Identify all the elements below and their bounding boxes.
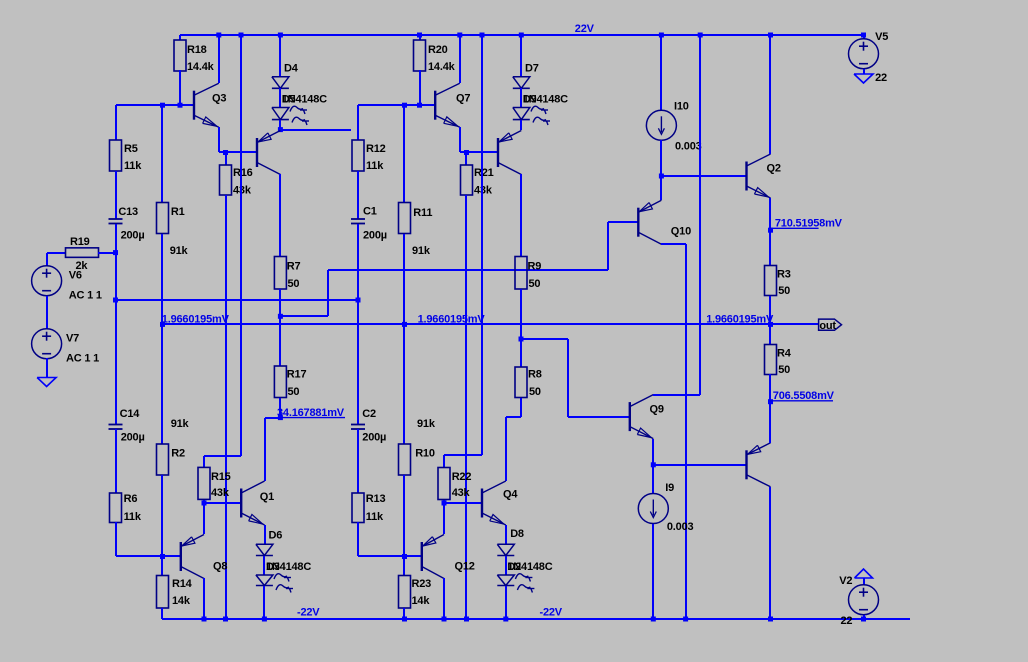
wire R15 to Q1 base — [203, 500, 205, 503]
diode D8b — [497, 575, 514, 586]
wire C2 to R13 — [357, 429, 359, 493]
wire Q8 collector down — [203, 578, 205, 619]
svg-text:14k: 14k — [412, 595, 431, 607]
svg-text:-22V: -22V — [297, 607, 320, 619]
junction Q8 collector rail — [202, 617, 207, 622]
svg-text:R13: R13 — [366, 493, 386, 505]
wire node to PNP3 base — [653, 464, 746, 466]
svg-text:Q3: Q3 — [212, 93, 226, 105]
resistor R19 — [66, 248, 99, 258]
junction R7 bottom node — [278, 314, 283, 319]
wire PNP3 emitter up — [769, 402, 771, 443]
resistor R11 — [399, 203, 411, 234]
wire D9 to node — [520, 120, 522, 130]
wire R22 to Q4 base — [443, 500, 445, 503]
resistor R3 — [765, 266, 777, 296]
resistor R18 — [174, 40, 186, 71]
wire V6 to V7 — [46, 296, 48, 329]
junction Q8 base node — [160, 554, 165, 559]
svg-text:50: 50 — [778, 285, 790, 297]
transistor Q7 (NPN) — [434, 91, 436, 120]
svg-text:D9: D9 — [523, 94, 537, 106]
wire bias vertical mid — [481, 35, 483, 455]
underline 706.5508mV — [770, 400, 833, 402]
wire R16 to rail — [225, 195, 227, 619]
svg-text:50: 50 — [288, 386, 300, 398]
svg-text:R19: R19 — [70, 236, 90, 248]
svg-text:R20: R20 — [428, 44, 448, 56]
junction Q1 base node — [202, 501, 207, 506]
svg-text:1.9660195mV: 1.9660195mV — [706, 314, 774, 326]
svg-text:R6: R6 — [124, 493, 138, 505]
wire R20 to base row — [419, 70, 421, 105]
svg-text:50: 50 — [778, 364, 790, 376]
svg-text:C13: C13 — [118, 206, 138, 218]
wire R9 to node — [520, 289, 522, 339]
voltage source V7 — [32, 329, 62, 359]
diode D6 — [256, 544, 273, 555]
transistor Q3 (NPN) — [193, 91, 195, 120]
svg-text:Q1: Q1 — [260, 491, 274, 503]
wire D7 to D9 — [520, 88, 522, 108]
resistor R21 — [461, 165, 473, 195]
junction D5 bottom node — [278, 127, 283, 132]
wire D6 to D6b — [263, 556, 265, 575]
junction R9 bottom node — [519, 337, 524, 342]
wire R23 to rail — [403, 608, 405, 619]
svg-text:out: out — [819, 320, 836, 332]
wire R12 to C1 — [357, 171, 359, 219]
svg-text:Q12: Q12 — [455, 561, 475, 573]
wire Q7 emitter — [459, 127, 461, 152]
wire R21 to rail — [465, 195, 467, 619]
wire Q4 emitter to D8 — [505, 525, 507, 544]
diode D5 — [272, 108, 289, 120]
wire bias vertical left — [240, 35, 242, 456]
svg-text:0.003: 0.003 — [667, 521, 694, 533]
svg-text:91k: 91k — [417, 418, 436, 430]
transistor Q8 (PNP) — [180, 542, 182, 571]
svg-text:200µ: 200µ — [362, 432, 386, 444]
junction PNP3 collector rail — [768, 617, 773, 622]
junction R16 top node — [223, 150, 228, 155]
wire C1 to C2 — [357, 224, 359, 424]
svg-text:91k: 91k — [170, 245, 189, 257]
wire Q4 base row — [444, 502, 482, 504]
svg-text:200µ: 200µ — [121, 432, 145, 444]
wire R12 top corner — [357, 105, 359, 140]
svg-text:Q7: Q7 — [456, 93, 470, 105]
svg-text:D5: D5 — [282, 94, 296, 106]
wire node to R21 — [465, 152, 467, 165]
diode D6b — [256, 575, 273, 586]
wire R17 node to Q1 collector — [265, 417, 280, 419]
svg-text:11k: 11k — [366, 511, 384, 523]
transistor Q12 (PNP) — [421, 542, 423, 571]
wire rail to D4 — [279, 35, 281, 77]
diode D7 — [513, 77, 530, 89]
junction V2 rail — [861, 617, 866, 622]
junction bias vertical rail — [239, 33, 244, 38]
junction D8 rail — [503, 617, 508, 622]
junction I10 rail — [659, 33, 664, 38]
svg-text:V7: V7 — [66, 333, 79, 345]
svg-text:D2: D2 — [507, 561, 521, 573]
svg-text:14k: 14k — [172, 595, 191, 607]
svg-text:R8: R8 — [528, 369, 542, 381]
wire Q1 emitter to D6 — [264, 525, 266, 544]
transistor Q2 (NPN) — [745, 162, 747, 191]
wire Q9 emitter — [652, 439, 654, 465]
diode D8 — [497, 544, 514, 555]
wire V6 top to R19 — [46, 253, 48, 266]
wire D5 to node — [279, 120, 281, 130]
wire rail to D7 — [520, 35, 522, 77]
svg-text:Q10: Q10 — [671, 226, 691, 238]
wire R1 top pin — [161, 105, 163, 202]
svg-text:I10: I10 — [674, 101, 689, 113]
wire bias link — [116, 299, 358, 301]
wire +22V top rail — [180, 34, 864, 36]
junction Q12 collector rail — [442, 617, 447, 622]
wire V5 top — [863, 35, 865, 39]
wire Q7 collector — [459, 35, 461, 83]
svg-text:R15: R15 — [211, 471, 231, 483]
wire R7 to node — [279, 289, 281, 316]
svg-text:43k: 43k — [452, 487, 471, 499]
svg-text:V6: V6 — [69, 270, 82, 282]
junction I9 rail — [651, 617, 656, 622]
svg-text:91k: 91k — [412, 245, 431, 257]
resistor R14 — [157, 576, 169, 609]
wire R17 bottom — [279, 398, 281, 418]
junction R11 top — [402, 103, 407, 108]
svg-text:11k: 11k — [366, 160, 384, 172]
wire R4 bottom — [769, 374, 771, 402]
junction bias link right — [356, 298, 361, 303]
wire rail to R20 — [419, 35, 421, 40]
junction Q3 collector rail — [216, 33, 221, 38]
svg-text:D4: D4 — [284, 63, 299, 75]
svg-text:R7: R7 — [287, 261, 301, 273]
wire R13 to Q12 base — [357, 522, 359, 556]
transistor PNP buffer mid (PNP) — [497, 138, 499, 167]
wire Q3 base row — [116, 104, 194, 106]
svg-text:50: 50 — [529, 386, 541, 398]
svg-text:R11: R11 — [413, 207, 432, 219]
junction R20 bottom — [417, 103, 422, 108]
underline 710.51958mV — [770, 227, 819, 229]
svg-text:1.9660195mV: 1.9660195mV — [162, 314, 230, 326]
svg-text:R4: R4 — [777, 348, 792, 360]
junction R19 node — [113, 250, 118, 255]
transistor Q4 (NPN) — [481, 489, 483, 518]
wire Q12 collector down — [443, 578, 445, 619]
junction bias link left — [113, 298, 118, 303]
junction Q2 emitter node — [768, 228, 773, 233]
wire PNP2 collector to R9 — [520, 174, 522, 256]
wire D4 to D5 — [279, 88, 281, 108]
svg-text:R12: R12 — [366, 143, 386, 155]
svg-text:0.003: 0.003 — [675, 141, 702, 153]
svg-text:I9: I9 — [665, 482, 674, 494]
svg-text:Q2: Q2 — [767, 163, 781, 175]
svg-text:AC 1 1: AC 1 1 — [66, 353, 99, 365]
voltage source V2 — [849, 585, 879, 615]
wire node to I9 — [652, 465, 654, 494]
resistor R12 — [352, 140, 364, 171]
current source I10 — [646, 110, 676, 140]
junction Q2 collector rail — [768, 33, 773, 38]
wire C14 to R6 — [115, 429, 117, 493]
junction R17 bottom node — [278, 415, 283, 420]
transistor PNP buffer left (PNP) — [256, 138, 258, 167]
svg-text:C14: C14 — [120, 408, 141, 420]
svg-text:Q8: Q8 — [213, 561, 227, 573]
underline 34.167881mV — [280, 417, 345, 419]
svg-text:R17: R17 — [287, 369, 307, 381]
wire Q2 emitter — [769, 198, 771, 230]
resistor R20 — [414, 40, 426, 71]
voltage source V6 — [32, 266, 62, 296]
wire C13 to C14 — [115, 224, 117, 424]
resistor R9 — [515, 257, 527, 290]
wire Q12 emitter up — [443, 503, 445, 534]
resistor R7 — [274, 257, 286, 290]
transistor output PNP (PNP) — [745, 450, 747, 479]
resistor R17 — [274, 366, 286, 398]
wire V7 to ground — [46, 358, 48, 378]
svg-text:50: 50 — [529, 278, 541, 290]
transistor Q9 (NPN) — [629, 402, 631, 431]
svg-text:200µ: 200µ — [363, 230, 387, 242]
svg-text:43k: 43k — [474, 185, 493, 197]
junction R20 rail — [417, 33, 422, 38]
junction D7 rail — [519, 33, 524, 38]
svg-text:D3: D3 — [266, 561, 280, 573]
voltage source V5 — [849, 39, 879, 69]
svg-text:14.4k: 14.4k — [428, 61, 456, 73]
wire rail to I10 — [660, 35, 662, 110]
wire R6 to Q8 base — [115, 522, 117, 556]
resistor R22 — [438, 468, 450, 500]
junction R21 rail — [464, 617, 469, 622]
resistor R8 — [515, 367, 527, 398]
wire R1 to R2 — [161, 234, 163, 444]
wire node to Q9 base — [521, 338, 568, 340]
svg-text:43k: 43k — [233, 185, 252, 197]
svg-text:C1: C1 — [363, 206, 377, 218]
diode D9 — [513, 108, 530, 120]
svg-text:R5: R5 — [124, 143, 138, 155]
capacitor C1 — [351, 218, 365, 220]
wire D5 node stub — [280, 129, 351, 131]
svg-text:C2: C2 — [362, 408, 376, 420]
wire Q9 collector run — [653, 394, 700, 396]
svg-text:V2: V2 — [839, 575, 852, 587]
junction output net left — [160, 322, 165, 327]
svg-text:22: 22 — [875, 72, 887, 84]
capacitor C13 — [109, 218, 123, 220]
svg-text:22: 22 — [841, 615, 853, 627]
svg-text:R21: R21 — [474, 167, 494, 179]
junction Q10 collector rail — [683, 617, 688, 622]
junction Q9 collector rail — [698, 33, 703, 38]
ground below V7 — [37, 378, 56, 387]
transistor Q10 (PNP) — [637, 208, 639, 237]
wire node to Q2 base — [661, 175, 746, 177]
resistor R23 — [399, 576, 411, 609]
svg-text:R14: R14 — [172, 578, 193, 590]
wire PNP1 collector to R7 — [279, 174, 281, 256]
svg-text:AC 1 1: AC 1 1 — [69, 290, 102, 302]
current source I9 — [638, 494, 668, 524]
wire R18 to base row — [179, 70, 181, 105]
wire Q10 collector run — [661, 243, 686, 245]
wire R19 to node — [98, 252, 116, 254]
wire emitter node row — [219, 151, 257, 153]
svg-text:R9: R9 — [528, 261, 542, 273]
ground above V2 — [855, 569, 873, 578]
svg-text:D6: D6 — [269, 530, 283, 542]
wire D8b to rail — [505, 586, 507, 619]
resistor R16 — [220, 165, 232, 195]
transistor Q1 (NPN) — [240, 489, 242, 518]
wire node to R16 — [225, 152, 227, 165]
svg-text:200µ: 200µ — [121, 230, 145, 242]
junction R21 top node — [464, 150, 469, 155]
svg-text:-22V: -22V — [540, 607, 563, 619]
resistor R1 — [157, 203, 169, 234]
wire PNP3 collector down — [769, 487, 771, 619]
wire I9 to rail — [652, 524, 654, 619]
svg-text:D8: D8 — [510, 528, 524, 540]
resistor R10 — [399, 444, 411, 475]
junction Q9 emitter node — [651, 462, 656, 467]
junction I10 bottom node — [659, 174, 664, 179]
wire Q8 emitter up — [203, 503, 205, 534]
svg-text:D7: D7 — [525, 63, 539, 75]
svg-text:14.4k: 14.4k — [187, 61, 215, 73]
wire Q3 collector — [218, 35, 220, 83]
wire output net — [162, 323, 819, 325]
junction output net right — [768, 322, 773, 327]
junction Q4 base node — [442, 501, 447, 506]
junction Q7 collector rail — [457, 33, 462, 38]
wire -22V bottom rail — [162, 618, 910, 620]
diode D4 — [272, 77, 289, 89]
wire R7 node to R17 — [279, 316, 281, 366]
svg-text:R23: R23 — [412, 578, 432, 590]
svg-text:R1: R1 — [171, 206, 185, 218]
wire node to R8 — [520, 339, 522, 367]
junction D6 rail — [262, 617, 267, 622]
svg-text:R2: R2 — [171, 448, 185, 460]
junction R1 top — [160, 103, 165, 108]
wire R5 top corner — [115, 105, 117, 140]
junction bias vertical mid rail — [480, 33, 485, 38]
wire I10 to node — [660, 140, 662, 176]
wire R3 to R4 — [769, 296, 771, 344]
resistor R5 — [110, 140, 122, 171]
wire Q1 base row — [204, 502, 241, 504]
ground below V5 — [854, 74, 873, 83]
svg-text:43k: 43k — [211, 487, 230, 499]
wire V2 top — [863, 578, 865, 585]
wire node to R3 — [769, 230, 771, 266]
resistor R13 — [352, 493, 364, 523]
wire node to Q10 base — [280, 315, 328, 317]
wire R8 bottom — [520, 398, 522, 417]
junction Q12 base node — [402, 554, 407, 559]
svg-text:R22: R22 — [452, 471, 472, 483]
port out — [819, 319, 842, 330]
wire D6b to rail — [263, 586, 265, 619]
svg-text:91k: 91k — [171, 418, 190, 430]
svg-text:R10: R10 — [415, 448, 435, 460]
wire Q3 emitter — [218, 127, 220, 152]
wire emitter node row mid — [460, 151, 498, 153]
junction R16 rail — [223, 617, 228, 622]
wire R14 to rail — [161, 608, 163, 619]
capacitor C14 — [109, 424, 123, 426]
wire V5 bottom — [863, 69, 865, 74]
svg-text:50: 50 — [288, 278, 300, 290]
resistor R4 — [765, 345, 777, 375]
wire R5 to C13 — [115, 171, 117, 219]
wire Q7 base row — [358, 104, 435, 106]
svg-text:11k: 11k — [124, 160, 142, 172]
wire R11 to R10 — [403, 234, 405, 444]
svg-text:R16: R16 — [233, 167, 253, 179]
svg-text:11k: 11k — [124, 511, 142, 523]
junction R23 rail — [402, 617, 407, 622]
svg-text:22V: 22V — [575, 23, 595, 35]
junction D4 rail — [278, 33, 283, 38]
wire R11 top pin — [403, 105, 405, 202]
svg-text:1.9660195mV: 1.9660195mV — [418, 314, 486, 326]
capacitor C2 — [351, 424, 365, 426]
wire V2 bottom — [863, 615, 865, 619]
wire R10 to R23 — [403, 475, 405, 576]
junction R4 bottom node — [768, 399, 773, 404]
junction R18 bottom — [178, 103, 183, 108]
resistor R6 — [110, 493, 122, 523]
svg-text:V5: V5 — [875, 31, 888, 43]
resistor R15 — [198, 467, 210, 499]
junction output net mid — [402, 322, 407, 327]
svg-text:R3: R3 — [777, 269, 791, 281]
wire D8 to D8b — [505, 556, 507, 575]
wire rail to R18 — [179, 35, 181, 40]
junction V5 rail — [861, 33, 866, 38]
wire R2 to R14 — [161, 475, 163, 576]
wire Q2 collector — [769, 35, 771, 154]
svg-text:R18: R18 — [187, 44, 207, 56]
resistor R2 — [157, 444, 169, 475]
svg-text:Q9: Q9 — [650, 404, 664, 416]
svg-text:Q4: Q4 — [503, 489, 518, 501]
wire Q10 emitter up — [660, 176, 662, 200]
